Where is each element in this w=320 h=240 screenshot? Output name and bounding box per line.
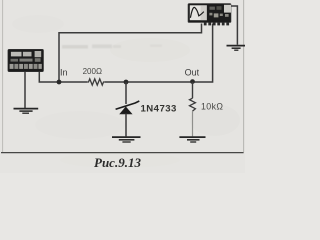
wire: scope ground stub	[231, 6, 237, 45]
ground (under 10k load)	[179, 137, 205, 142]
scan bleed-through smudge	[62, 44, 162, 48]
svg-text:Рис.9.13: Рис.9.13	[94, 155, 141, 170]
wire: R2 to ground	[192, 111, 194, 136]
figure bottom rule	[1, 152, 244, 154]
XFG1 button row	[10, 64, 42, 69]
wire: main row In node to R1	[59, 81, 87, 83]
wire: FG right terminal down to In row	[39, 71, 59, 83]
svg-text:Out: Out	[185, 68, 200, 78]
node Out	[190, 79, 195, 84]
ground (under zener)	[112, 137, 141, 142]
scope controls	[224, 5, 231, 13]
resistor R1 200 Ohm (zigzag)	[87, 79, 105, 85]
oscilloscope XSC1 (instrument icon)	[188, 4, 231, 26]
svg-text:In: In	[60, 68, 68, 78]
paper grain	[12, 15, 240, 168]
svg-text:1N4733: 1N4733	[141, 104, 177, 115]
scope screen	[190, 5, 207, 20]
page border left	[2, 0, 4, 152]
page border right	[243, 0, 245, 152]
wire: R1 to Out and up to scope terminal B	[105, 24, 213, 83]
wire: zener to ground	[125, 114, 127, 137]
ground (scope, right edge)	[227, 46, 246, 51]
wire: load branch upper lead	[192, 82, 194, 98]
node zener junction	[124, 80, 129, 85]
svg-text:200Ω: 200Ω	[83, 67, 102, 76]
zener diode D1 1N4733 cathode bar	[116, 101, 140, 109]
zener diode D1 anode triangle	[120, 107, 132, 114]
function generator XFG1 (instrument icon)	[8, 49, 44, 71]
wire: FG left terminal to ground	[24, 71, 26, 109]
wire: zener branch upper lead	[125, 82, 127, 104]
scope bottom terminals	[204, 22, 229, 25]
svg-text:10kΩ: 10kΩ	[201, 102, 223, 112]
scope trace (wave)	[190, 7, 203, 17]
XFG1 middle controls	[11, 59, 19, 62]
resistor R2 10k (vertical zigzag)	[190, 98, 196, 111]
wire: In node up and top rail to scope terminal A	[59, 24, 202, 83]
XFG1 display windows	[11, 52, 22, 57]
node In	[57, 80, 62, 85]
ground (under function generator)	[14, 109, 39, 114]
